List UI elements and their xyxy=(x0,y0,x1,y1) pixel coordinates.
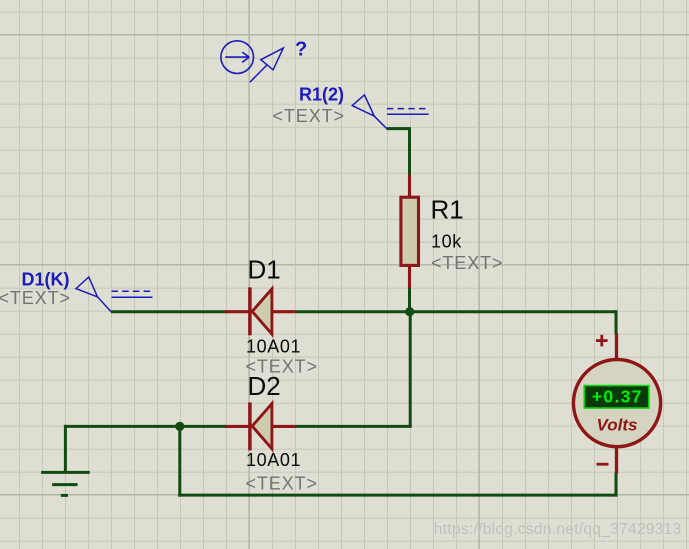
svg-text:D2: D2 xyxy=(248,371,281,401)
svg-text:D1: D1 xyxy=(248,255,281,285)
voltmeter body xyxy=(573,360,660,447)
svg-text:<TEXT>: <TEXT> xyxy=(0,288,71,308)
resistor R1 pin top xyxy=(408,175,411,197)
ground symbol xyxy=(41,472,90,495)
voltmeter minus sign xyxy=(597,463,609,466)
voltmeter display xyxy=(584,386,649,408)
wire D1 row left (probe to diode) xyxy=(111,310,226,313)
svg-text:?: ? xyxy=(295,39,307,61)
node B junction dot xyxy=(175,422,184,431)
diode D2 triangle xyxy=(252,404,272,449)
diode D2 right pin xyxy=(272,425,297,428)
node A junction dot xyxy=(405,307,414,316)
svg-text:R1: R1 xyxy=(431,195,464,225)
diode D2 cathode bar xyxy=(248,402,252,450)
diode D1 cathode bar xyxy=(248,287,252,335)
svg-text:10k: 10k xyxy=(431,231,462,251)
current probe ? (circle with arrow) xyxy=(221,41,254,74)
voltage probe R1(2) arrow xyxy=(352,95,387,129)
wire resistor bottom to node A xyxy=(408,288,411,312)
voltmeter pin bottom xyxy=(615,448,618,474)
wire node A down to D2 row xyxy=(409,312,412,427)
diode D1 triangle xyxy=(252,289,272,334)
wire node B down to bottom rail xyxy=(178,426,181,496)
svg-text:<TEXT>: <TEXT> xyxy=(273,106,345,126)
diode D2 left pin xyxy=(225,425,249,428)
wire probe to resistor top xyxy=(387,129,410,176)
wire D1 to node A to meter branch xyxy=(296,310,616,313)
svg-text:10A01: 10A01 xyxy=(246,450,301,470)
svg-text:+0.37: +0.37 xyxy=(592,387,643,407)
voltage probe D1(K) pin lines xyxy=(112,291,153,297)
voltmeter pin top xyxy=(615,334,618,360)
svg-text:<TEXT>: <TEXT> xyxy=(431,253,503,273)
resistor R1 pin bottom xyxy=(408,267,411,290)
cursor arrow of current probe xyxy=(250,48,283,82)
svg-text:R1(2): R1(2) xyxy=(299,85,344,105)
voltmeter plus sign xyxy=(596,335,608,347)
wire voltmeter minus to bottom rail xyxy=(615,473,618,497)
svg-text:<TEXT>: <TEXT> xyxy=(246,474,318,494)
diode D1 left pin xyxy=(225,310,249,313)
wire ground stub xyxy=(64,425,67,473)
svg-text:Volts: Volts xyxy=(597,415,638,434)
resistor R1 body xyxy=(401,197,419,265)
svg-text:D1(K): D1(K) xyxy=(22,270,70,290)
wire D2 anode to vertical riser xyxy=(296,425,412,428)
svg-text:https://blog.csdn.net/qq_37429: https://blog.csdn.net/qq_37429313 xyxy=(434,521,682,538)
wire node A to voltmeter plus xyxy=(615,310,618,334)
wire ground row (ground to D2) xyxy=(64,425,226,428)
voltage probe R1(2) pin lines xyxy=(387,109,429,115)
diode D1 right pin xyxy=(272,310,297,313)
wire bottom rail xyxy=(178,494,617,497)
svg-text:10A01: 10A01 xyxy=(246,337,301,357)
voltage probe D1(K) arrow xyxy=(76,277,111,312)
